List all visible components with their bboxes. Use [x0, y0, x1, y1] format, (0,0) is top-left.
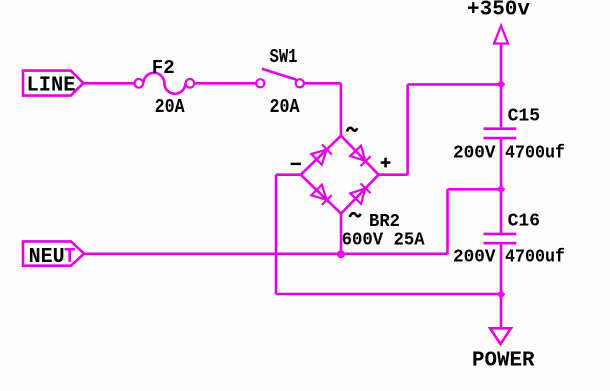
diode D-bottomleft [311, 185, 332, 206]
wire corner up [406, 84, 409, 174]
switch SW1 [256, 69, 304, 88]
wire LINE tag to fuse [84, 82, 135, 85]
wire switch to corner [304, 82, 341, 85]
wire down left side [275, 175, 278, 294]
wire to cap midpoint [448, 188, 502, 191]
wire corner down to bridge top [340, 83, 343, 136]
tilde AC bottom [350, 213, 361, 217]
svg-text:NEU: NEU [29, 246, 65, 269]
minus sign [291, 163, 301, 165]
main right rail [500, 44, 503, 329]
svg-text:C15: C15 [508, 106, 541, 126]
svg-text:POWER: POWER [472, 350, 535, 373]
junction node cap midpoint [497, 185, 506, 194]
wire fuse to switch [194, 82, 256, 85]
wire bottom to rail [276, 293, 501, 296]
svg-text:600V 25A: 600V 25A [342, 231, 425, 251]
svg-text:20A: 20A [155, 96, 185, 118]
diode D-bottomright [350, 183, 371, 204]
svg-text:4700uf: 4700uf [505, 143, 565, 163]
power arrow +350v [494, 26, 508, 44]
svg-text:C16: C16 [508, 211, 540, 231]
port tag NEUT [23, 241, 84, 269]
tilde AC top [347, 128, 357, 132]
capacitor C15 [484, 129, 517, 138]
wire bridge + to corner [379, 173, 408, 176]
bridge BR2 diamond [301, 136, 379, 214]
power arrow POWER (down) [490, 328, 511, 344]
svg-text:4700uf: 4700uf [505, 247, 565, 267]
junction node bridge bottom [337, 250, 345, 258]
fuse F2 [135, 73, 195, 94]
port tag LINE [23, 71, 83, 98]
diode D-topleft [311, 144, 332, 165]
svg-text:200V: 200V [453, 143, 496, 163]
svg-text:20A: 20A [270, 96, 300, 118]
svg-text:LINE: LINE [27, 75, 76, 98]
diode D-topright [350, 146, 371, 167]
capacitor C16 [484, 234, 517, 243]
svg-text:200V: 200V [453, 247, 496, 267]
svg-text:SW1: SW1 [270, 46, 298, 68]
junction node +350 rail top [497, 80, 506, 89]
wire to +350v rail [408, 83, 501, 86]
svg-text:+350v: +350v [467, 0, 530, 22]
plus sign [381, 158, 391, 168]
wire bridge bottom to junction [340, 214, 343, 255]
svg-text:F2: F2 [152, 57, 175, 79]
wire up [446, 189, 449, 254]
wire NEUT to corner [84, 253, 448, 256]
junction node rail bottom [497, 290, 506, 299]
svg-text:T: T [64, 246, 76, 269]
wire bridge - to corner [276, 173, 301, 176]
svg-text:BR2: BR2 [369, 212, 400, 232]
